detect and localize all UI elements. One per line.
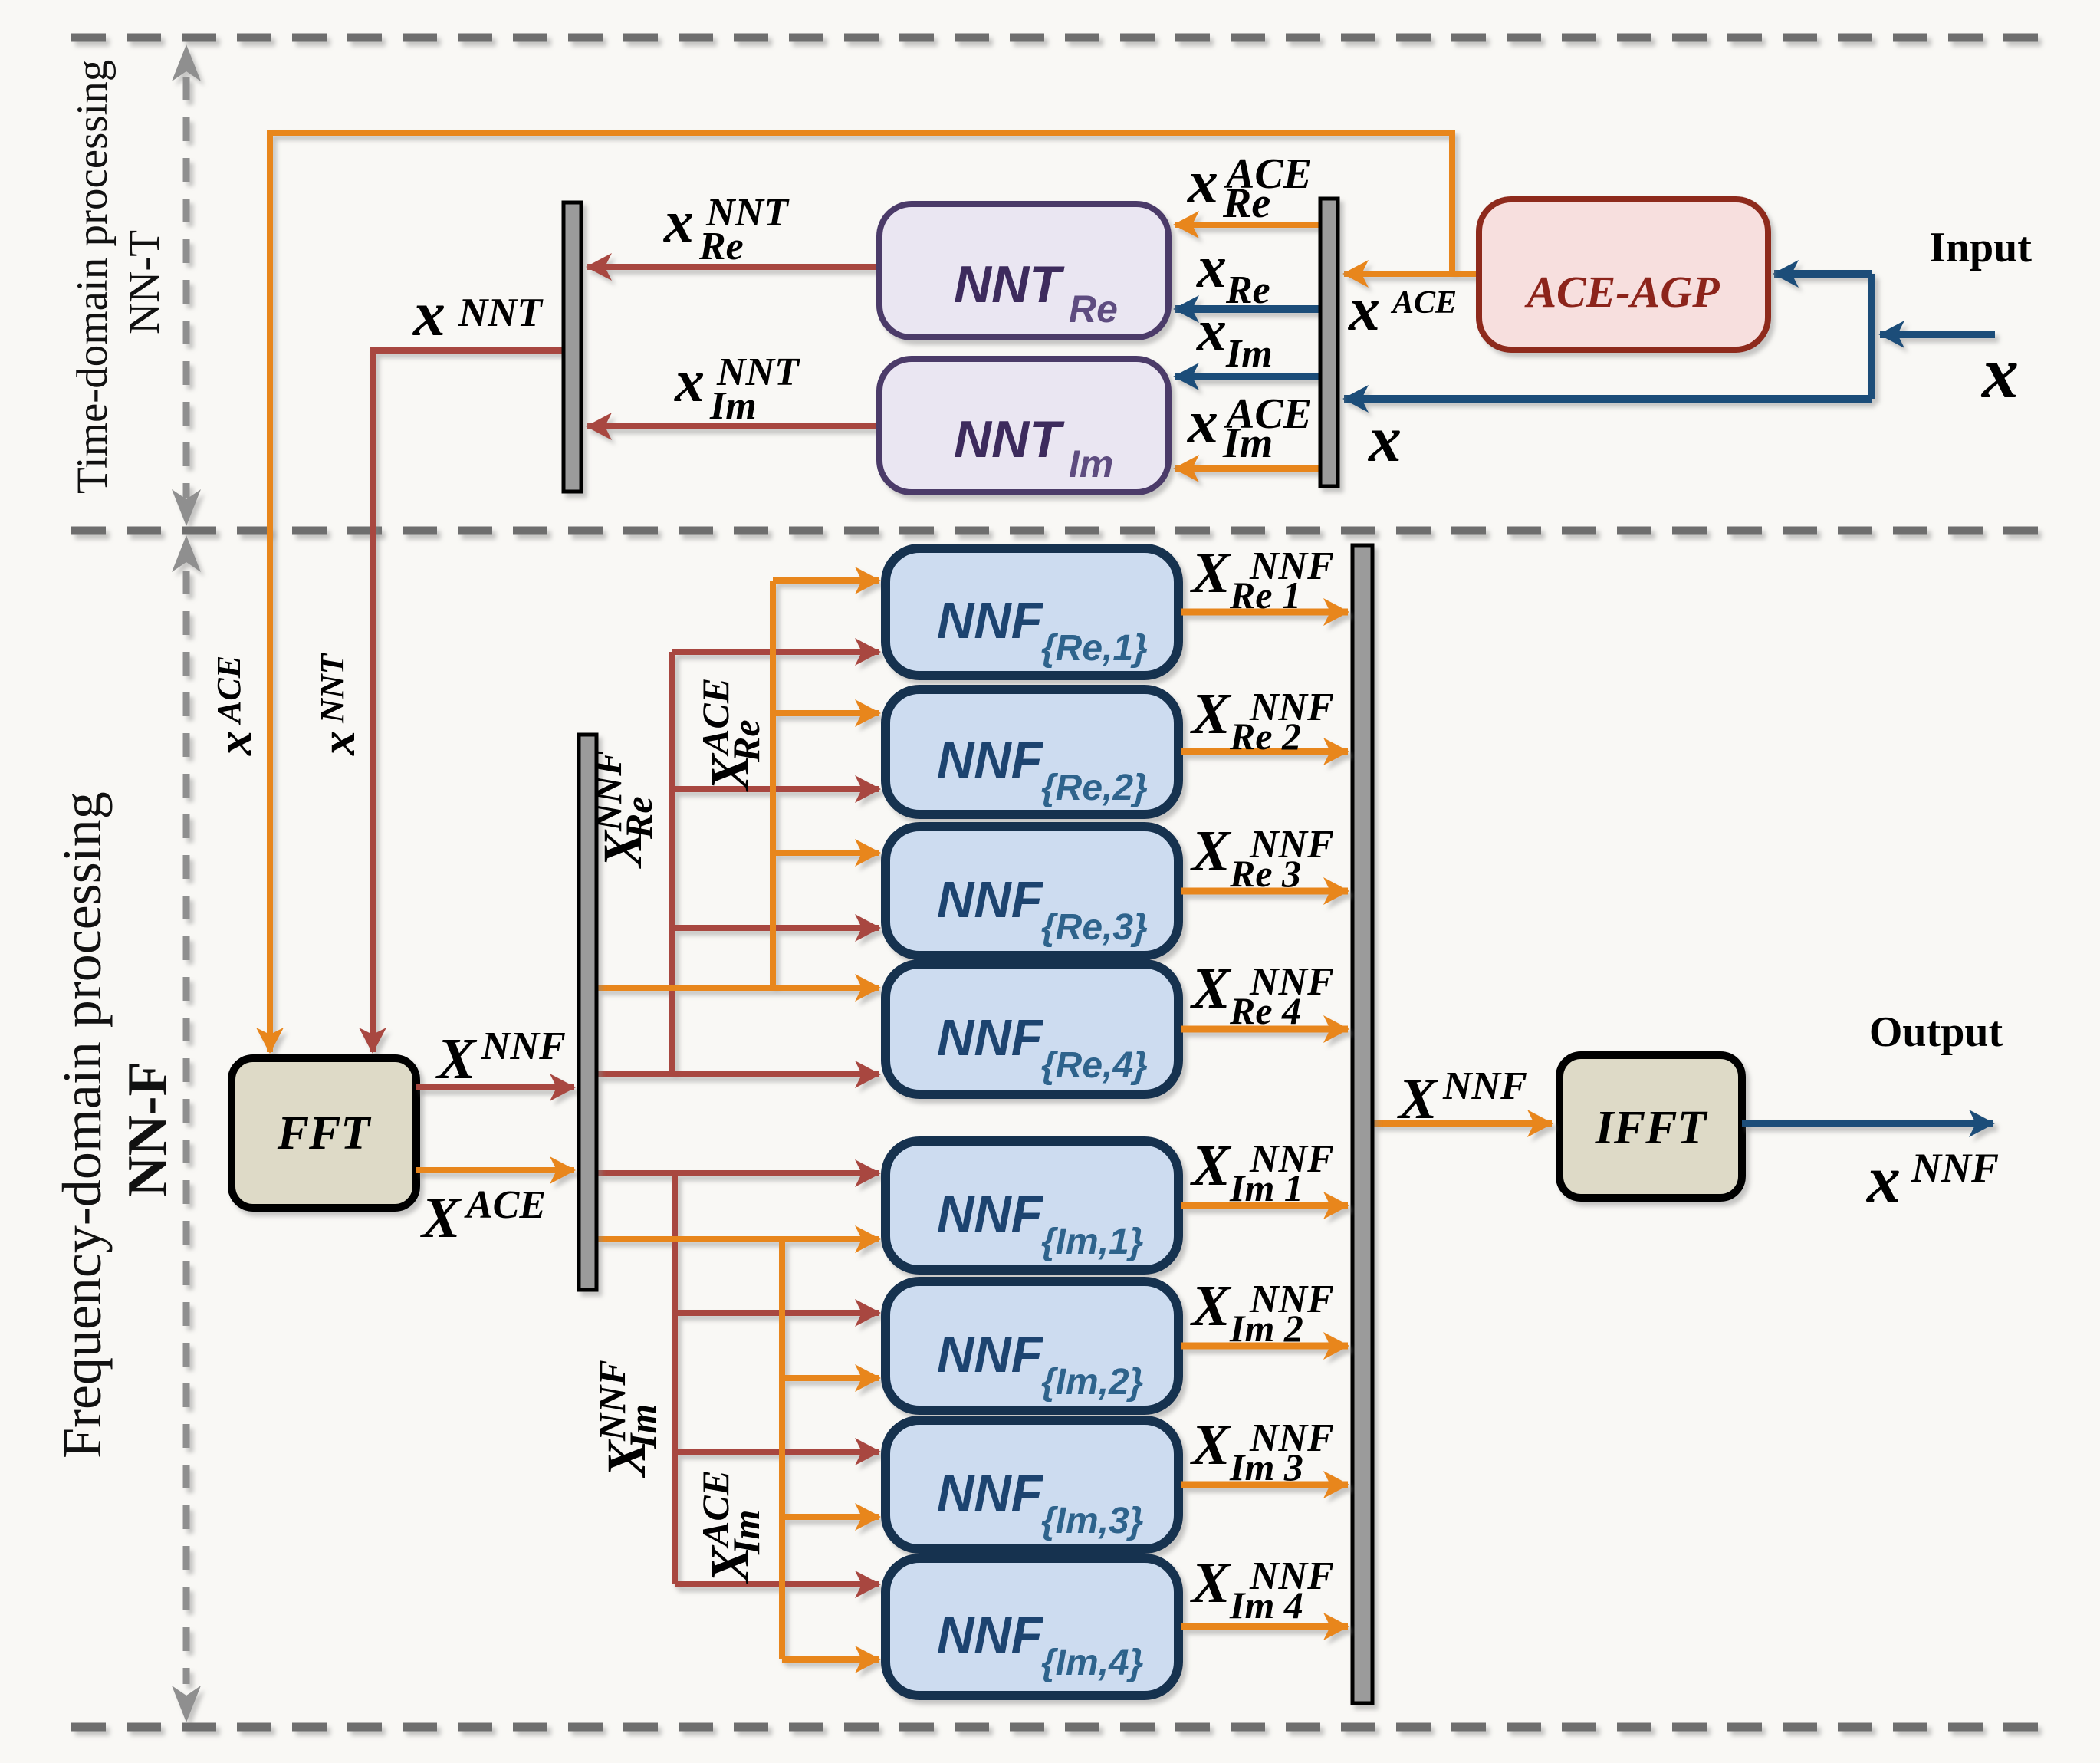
- svg-text:NNF: NNF: [937, 1009, 1044, 1067]
- wire: X^NNF_Im 1 output to collection bar (orange): [1181, 1202, 1348, 1209]
- block ACE-AGP: [1479, 199, 1768, 350]
- wire: x_Im from bar to NNT_Im (blue): [1175, 373, 1320, 380]
- svg-text:NNF: NNF: [937, 1465, 1044, 1522]
- block NNF_{Im,2}: [886, 1281, 1178, 1410]
- wire: orange stub into NNF_Re2: [773, 710, 879, 716]
- block NNF_{Re,4}: [886, 964, 1178, 1094]
- svg-text:Re 4: Re 4: [1229, 989, 1301, 1032]
- wire: X^NNF_Re trunk from bar to NNF_Re4 (red): [597, 1071, 879, 1077]
- wire: X^NNF_Re 1 output to collection bar (orange): [1181, 609, 1348, 616]
- wire: red stub into NNF_Im3: [675, 1449, 879, 1455]
- svg-text:Im: Im: [1225, 332, 1273, 376]
- svg-text:x: x: [1187, 389, 1218, 456]
- svg-text:NNF: NNF: [481, 1025, 566, 1068]
- block NNF_{Re,1}: [886, 548, 1178, 676]
- frame: bottom dashed border: [71, 1723, 2042, 1732]
- svg-text:NN-F: NN-F: [117, 1061, 179, 1197]
- svg-text:Im: Im: [725, 1510, 767, 1555]
- label X^NNF_Im (rotated): [590, 1360, 664, 1478]
- svg-text:X: X: [1397, 1067, 1439, 1131]
- svg-text:Im 2: Im 2: [1229, 1307, 1303, 1350]
- svg-text:X: X: [1190, 819, 1232, 883]
- svg-text:x: x: [311, 731, 365, 756]
- wire: x^NNT from left collection bar down to FFT (red): [373, 350, 564, 1052]
- block IFFT: [1559, 1055, 1742, 1198]
- junction bar: FFT output distribution bar: [579, 735, 596, 1290]
- svg-text:x: x: [663, 188, 694, 255]
- block NNF_{Im,4}: [886, 1558, 1178, 1696]
- svg-text:X: X: [1190, 541, 1232, 605]
- wire: x_Re from bar to NNT_Re (blue): [1175, 305, 1320, 313]
- svg-text:{Im,1}: {Im,1}: [1041, 1222, 1143, 1262]
- svg-text:ACE-AGP: ACE-AGP: [1524, 267, 1720, 317]
- wire: X^ACE_Im trunk from bar to NNF_Im1 (orange): [597, 1236, 879, 1242]
- svg-text:X: X: [1190, 956, 1232, 1021]
- wire: X^NNF_Im 4 output to collection bar (orange): [1181, 1623, 1348, 1630]
- svg-text:Time-domain processing: Time-domain processing: [68, 60, 117, 494]
- svg-text:Im: Im: [709, 384, 757, 428]
- junction bar: NNT output collection bar: [564, 202, 581, 492]
- wire: X^NNF_Im 2 output to collection bar (orange): [1181, 1343, 1348, 1350]
- wire: x^NNT_Re from NNT_Re to left bar (red): [587, 264, 879, 270]
- wire: X^ACE from FFT to mid bar (orange): [416, 1167, 574, 1173]
- svg-text:{Im,3}: {Im,3}: [1041, 1501, 1143, 1541]
- svg-text:X: X: [1190, 682, 1232, 746]
- wire: X^ACE_Re trunk from bar to NNF_Re4 (orange): [597, 985, 879, 991]
- svg-text:Im: Im: [1069, 442, 1113, 485]
- svg-text:NNF: NNF: [937, 1326, 1044, 1383]
- svg-text:Im: Im: [621, 1404, 664, 1449]
- svg-text:X: X: [420, 1186, 462, 1250]
- svg-text:Re: Re: [1222, 179, 1270, 227]
- svg-text:ACE: ACE: [464, 1183, 546, 1227]
- svg-text:Re 2: Re 2: [1229, 715, 1301, 758]
- svg-text:Re: Re: [617, 796, 660, 840]
- wire: red stub into NNF_Im4: [675, 1581, 879, 1587]
- NN-T section vertical dashed extent line: [183, 77, 190, 498]
- svg-text:x: x: [1187, 149, 1218, 216]
- svg-text:{Re,2}: {Re,2}: [1041, 768, 1148, 808]
- wire: X^NNF_Im trunk from bar to NNF_Im1 (red): [597, 1170, 879, 1176]
- svg-text:x: x: [1980, 331, 2019, 413]
- svg-text:{Re,3}: {Re,3}: [1041, 907, 1148, 948]
- svg-text:NN-T: NN-T: [120, 230, 169, 334]
- svg-text:x: x: [412, 278, 445, 350]
- wire: x^NNT_Im from NNT_Im to left bar (red): [587, 423, 879, 429]
- wire: X^NNF_Im 3 output to collection bar (orange): [1181, 1482, 1348, 1488]
- wire: X^NNF from FFT to mid bar (red): [416, 1084, 574, 1090]
- block NNT_Re: [879, 204, 1168, 337]
- block NNF_{Re,2}: [886, 689, 1178, 814]
- svg-text:NNF: NNF: [1442, 1064, 1527, 1108]
- label X^ACE_Im (rotated): [694, 1470, 767, 1584]
- svg-text:ACE: ACE: [1390, 285, 1457, 321]
- wire: orange stub into NNF_Im2: [782, 1375, 879, 1381]
- wire: X^ACE_Re vertical feeder (orange): [770, 581, 776, 988]
- svg-text:Im 1: Im 1: [1229, 1166, 1303, 1209]
- svg-text:X: X: [435, 1027, 478, 1091]
- svg-text:NNT: NNT: [314, 652, 351, 724]
- junction bar: NNF output collection bar: [1352, 545, 1372, 1703]
- label x^NNT (rotated, feed to FFT): [311, 652, 365, 756]
- junction bar: top input distribution bar: [1320, 199, 1338, 486]
- svg-text:Re: Re: [725, 719, 767, 763]
- label X^NNF_Re (rotated): [587, 750, 660, 869]
- svg-text:x: x: [1196, 297, 1227, 363]
- wire: red stub into NNF_Im2: [675, 1310, 879, 1316]
- svg-text:{Re,4}: {Re,4}: [1041, 1045, 1148, 1086]
- svg-text:FFT: FFT: [277, 1107, 372, 1159]
- wire: Input x arrow into branch point (blue): [1880, 331, 1995, 338]
- wire: orange stub into NNF_Re1: [773, 577, 879, 584]
- block NNF_{Im,1}: [886, 1141, 1178, 1270]
- svg-text:IFFT: IFFT: [1595, 1102, 1708, 1154]
- section label: Frequency-domain processing: [51, 791, 113, 1459]
- svg-text:Output: Output: [1869, 1008, 2003, 1056]
- svg-text:NNF: NNF: [937, 1607, 1044, 1664]
- block NNF_{Im,3}: [886, 1420, 1178, 1549]
- svg-text:X: X: [1190, 1413, 1232, 1477]
- frame: middle dashed separator: [71, 527, 2042, 535]
- svg-text:X: X: [1190, 1551, 1232, 1615]
- wire: red stub into NNF_Re1: [672, 649, 879, 655]
- wire: X^NNF_Im vertical feeder (red): [672, 1173, 678, 1584]
- svg-text:NNT: NNT: [954, 255, 1065, 314]
- label x^ACE (rotated, feed to FFT): [207, 656, 261, 756]
- block NNF_{Re,3}: [886, 827, 1178, 956]
- wire: X^NNF from big bar to IFFT (orange): [1372, 1120, 1552, 1127]
- wire: X^NNF_Re vertical feeder (red): [669, 652, 675, 1074]
- svg-text:Re 3: Re 3: [1229, 852, 1301, 895]
- wire: x^ACE_Im from bar to NNT_Im (orange): [1175, 465, 1320, 472]
- svg-text:Im 3: Im 3: [1229, 1446, 1303, 1488]
- wire: x into top distribution bar (blue): [1344, 395, 1872, 403]
- svg-text:x: x: [674, 347, 705, 414]
- block NNT_Im: [879, 359, 1168, 492]
- block FFT: [232, 1058, 416, 1208]
- wire: X^NNF_Re 4 output to collection bar (orange): [1181, 1026, 1348, 1033]
- svg-text:x: x: [1367, 402, 1402, 475]
- section label: NN-F: [117, 1061, 179, 1197]
- svg-text:X: X: [1190, 1133, 1232, 1198]
- svg-text:{Im,4}: {Im,4}: [1041, 1643, 1143, 1683]
- svg-text:Re: Re: [1069, 288, 1118, 331]
- frame: top dashed border: [71, 34, 2042, 42]
- section label: Time-domain processing: [68, 60, 117, 494]
- wire: output x^NNF from IFFT (blue): [1742, 1120, 1993, 1127]
- svg-text:NNF: NNF: [937, 1186, 1044, 1243]
- svg-text:Re: Re: [1225, 268, 1270, 312]
- svg-text:x: x: [1865, 1143, 1901, 1217]
- svg-text:x: x: [207, 731, 261, 756]
- svg-text:Frequency-domain processing: Frequency-domain processing: [51, 791, 113, 1459]
- svg-text:X: X: [1190, 1274, 1232, 1338]
- svg-text:NNF: NNF: [937, 871, 1044, 929]
- NN-F section vertical dashed extent line: [183, 571, 190, 1684]
- wire: X^NNF_Re 2 output to collection bar (orange): [1181, 748, 1348, 755]
- wire: input x vertical branch (blue): [1868, 274, 1875, 399]
- wire: orange stub into NNF_Im4: [782, 1656, 879, 1663]
- wire: X^ACE_Im vertical feeder (orange): [779, 1239, 785, 1659]
- svg-text:NNF: NNF: [937, 592, 1044, 650]
- label X^ACE_Re (rotated): [694, 678, 767, 792]
- svg-text:Im 4: Im 4: [1229, 1584, 1303, 1626]
- svg-text:{Im,2}: {Im,2}: [1041, 1362, 1143, 1403]
- svg-text:Input: Input: [1929, 224, 2032, 271]
- wire: x^ACE_Re from bar to NNT_Re (orange): [1175, 222, 1320, 228]
- wire: orange stub into NNF_Re3: [773, 850, 879, 856]
- svg-text:NNF: NNF: [937, 732, 1044, 789]
- svg-text:NNT: NNT: [954, 410, 1065, 469]
- svg-text:Re 1: Re 1: [1229, 574, 1301, 617]
- wire: orange stub into NNF_Im3: [782, 1514, 879, 1520]
- svg-text:{Re,1}: {Re,1}: [1041, 628, 1148, 669]
- svg-text:Re: Re: [698, 225, 744, 268]
- section label: NN-T: [120, 230, 169, 334]
- svg-text:NNT: NNT: [458, 291, 544, 335]
- wire: x into ACE-AGP (blue): [1774, 270, 1872, 278]
- svg-text:ACE: ACE: [210, 656, 248, 725]
- wire: x^ACE feedback from ACE-AGP down to FFT (orange): [270, 133, 1452, 1052]
- svg-text:NNF: NNF: [1911, 1145, 1999, 1191]
- svg-text:Im: Im: [1222, 419, 1273, 467]
- wire: x^ACE from ACE-AGP into top distribution bar (orange): [1344, 271, 1479, 277]
- wire: red stub into NNF_Re2: [672, 786, 879, 792]
- wire: X^NNF_Re 3 output to collection bar (orange): [1181, 888, 1348, 895]
- svg-text:x: x: [1196, 233, 1227, 300]
- svg-text:x: x: [1348, 274, 1380, 344]
- wire: red stub into NNF_Re3: [672, 925, 879, 931]
